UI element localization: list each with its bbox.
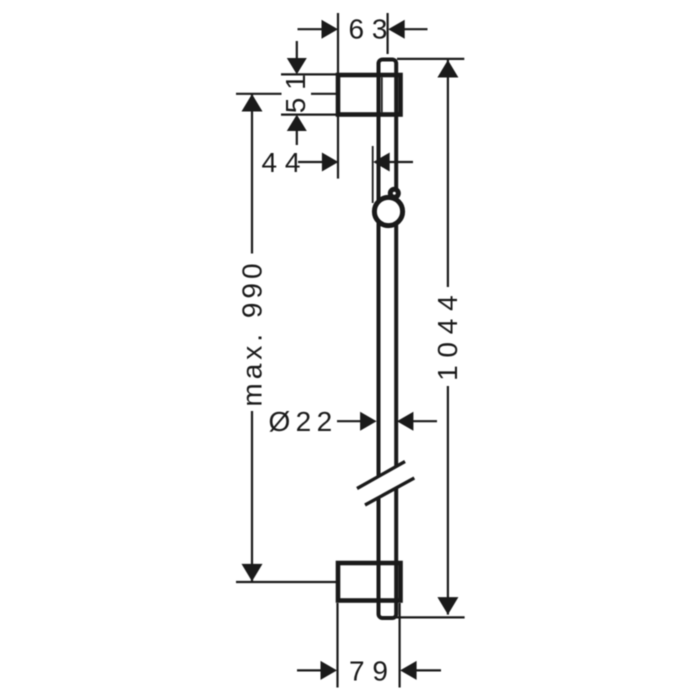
svg-text:6 3: 6 3 [349, 14, 388, 45]
svg-text:5 1: 5 1 [280, 74, 311, 113]
svg-text:1 0 4 4: 1 0 4 4 [432, 295, 463, 381]
svg-text:7 9: 7 9 [349, 656, 388, 687]
svg-text:4 4: 4 4 [262, 147, 301, 178]
svg-text:max. 990: max. 990 [237, 259, 268, 406]
svg-text:Ø 2 2: Ø 2 2 [269, 406, 332, 437]
